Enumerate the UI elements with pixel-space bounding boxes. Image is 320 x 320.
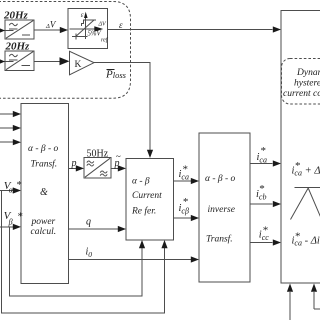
svg-text:ε: ε: [81, 11, 84, 19]
svg-text:α - β - o: α - β - o: [205, 174, 236, 184]
svg-text:Transf.: Transf.: [206, 234, 233, 245]
svg-text:β: β: [8, 218, 13, 227]
svg-text:power: power: [31, 217, 56, 227]
svg-text:i0: i0: [86, 247, 93, 260]
svg-text:*: *: [182, 196, 188, 208]
svg-text:*: *: [295, 160, 301, 172]
svg-text:α - β: α - β: [132, 177, 150, 187]
svg-text:*: *: [262, 224, 268, 236]
svg-text:calcul.: calcul.: [31, 227, 57, 237]
svg-text:*: *: [182, 164, 188, 176]
svg-text:Transf.: Transf.: [31, 159, 58, 170]
svg-text:~: ~: [116, 152, 121, 162]
svg-text:ε: ε: [119, 20, 123, 30]
svg-text:*: *: [260, 145, 266, 157]
svg-text:current co: current co: [283, 89, 320, 99]
svg-text:*: *: [295, 231, 301, 243]
svg-text:hysteresis: hysteresis: [294, 79, 320, 89]
svg-text:Ploss: Ploss: [105, 69, 127, 81]
svg-text:ΔV: ΔV: [98, 22, 108, 28]
svg-text:Current: Current: [132, 191, 162, 201]
svg-text:Dynamic: Dynamic: [296, 68, 320, 78]
svg-text:inverse: inverse: [208, 205, 235, 215]
svg-text:K: K: [75, 60, 82, 70]
svg-text:50Hz: 50Hz: [87, 148, 109, 159]
svg-text:&: &: [40, 187, 48, 198]
svg-text:20Hz: 20Hz: [3, 9, 29, 21]
svg-text:*: *: [17, 211, 23, 223]
svg-text:ΔV: ΔV: [45, 20, 57, 31]
svg-text:5%V: 5%V: [88, 31, 102, 38]
svg-text:*: *: [259, 183, 265, 195]
svg-text:α - β - o: α - β - o: [28, 144, 59, 154]
svg-text:Re fer.: Re fer.: [131, 206, 156, 217]
svg-text:*: *: [16, 179, 22, 191]
svg-text:q: q: [86, 217, 91, 228]
svg-text:p: p: [71, 158, 77, 169]
svg-text:20Hz: 20Hz: [5, 41, 31, 53]
